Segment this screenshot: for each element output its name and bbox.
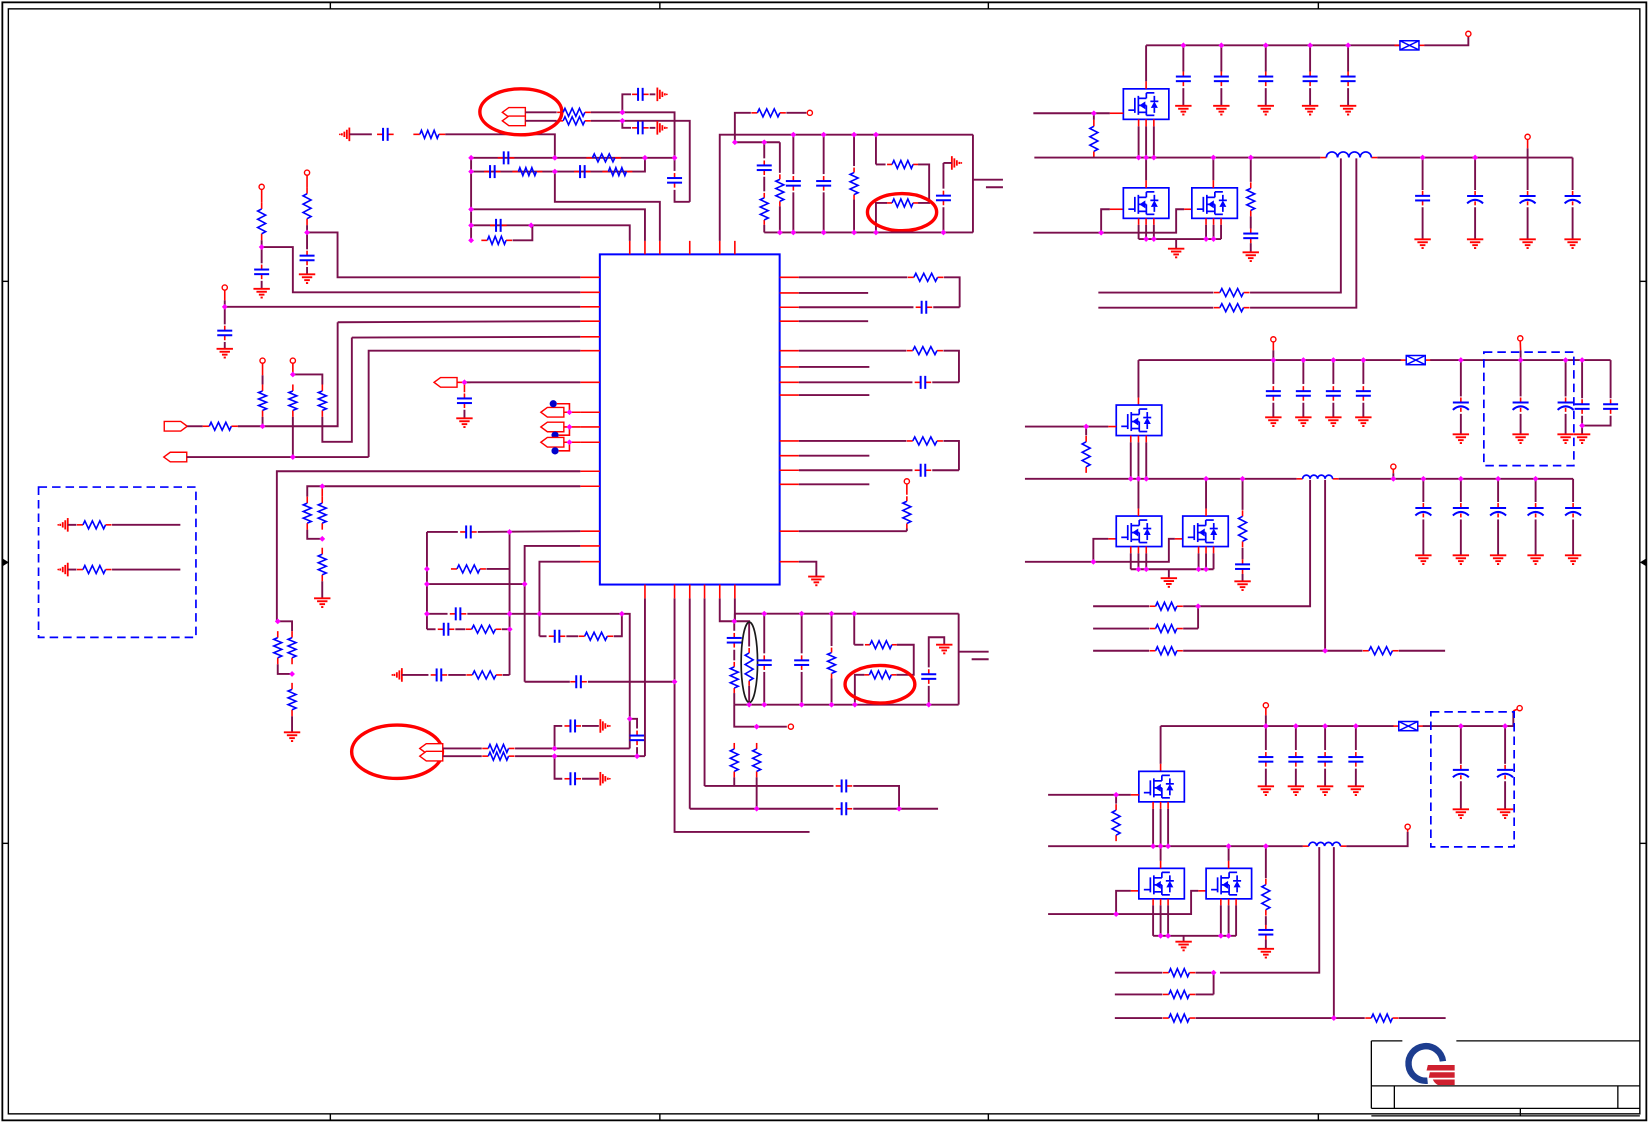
output capacitor mid x1423 [1421, 476, 1427, 482]
comp cap+res row 628.9 [427, 628, 436, 630]
net2 kelvin left vertical [853, 614, 855, 645]
junction x756 row 808 [754, 806, 760, 812]
inductor L3 [1303, 845, 1309, 847]
input capacitor third x1265.5 [1263, 723, 1269, 729]
sense row1 third [1115, 972, 1163, 974]
row B cap branch down [555, 756, 563, 779]
inductor L2 [1297, 478, 1303, 480]
junction x637 row B [634, 753, 640, 759]
output cap 3 top block [1527, 158, 1529, 191]
dashed row2 sideways ground [67, 563, 69, 577]
wire row5 209 to IC pin 644 [471, 209, 645, 241]
wire row 134 to corner down x=554.5 [445, 134, 554, 158]
net2 top rail [735, 613, 959, 615]
net1 kelvin loop left vertical [875, 135, 877, 165]
net2 kelvin resistor upper [854, 644, 863, 646]
pull-up resistor R2 with terminal [304, 170, 309, 175]
IC U1 bottom pins [644, 585, 646, 599]
cap to sideways gnd row 94 [622, 94, 631, 112]
net2 bottom rail [734, 704, 958, 706]
snubber cap middle [1242, 548, 1244, 560]
terminal with capacitor to IC pin row 306.5 [222, 285, 227, 290]
IC left arrow port row 441.9 [541, 437, 564, 447]
snubber ground top block [1250, 243, 1252, 252]
ground below B3 [321, 581, 323, 598]
input capacitor third x1324.75 [1322, 723, 1328, 729]
IC U1 right pins [780, 276, 799, 278]
wire Rc bottom jog [322, 338, 352, 442]
ground source bus third [1183, 936, 1185, 941]
series resistor A3 [291, 683, 293, 690]
VIN rail right segment third [1423, 711, 1514, 726]
wire row4 171.25 [471, 158, 645, 172]
Q2hs drain from rail [1137, 360, 1139, 397]
sideways gnd row 778.4 [582, 778, 599, 780]
row 785.6 cap [705, 785, 834, 787]
input capacitor mid x1303 [1301, 357, 1307, 363]
red ellipse highlight net2 [845, 665, 915, 703]
IC pin x689 vertical [689, 598, 691, 808]
junction row 456.7 at Rb [290, 454, 296, 460]
row 808.4 tail [853, 808, 938, 810]
wire row A to corner x629 [515, 747, 630, 749]
sense row3 second resistor [1363, 650, 1369, 652]
capacitor row4 first [484, 171, 490, 173]
gate wire Q1hs [1033, 112, 1110, 114]
network2 pins join [720, 598, 735, 621]
sense row1 middle [1093, 605, 1149, 607]
wire x554 down to row 201.5 [555, 172, 660, 241]
stacked resistor row 120 [557, 120, 563, 122]
MOSFET Q1 high-side [1123, 89, 1169, 120]
output terminal middle [1391, 464, 1396, 469]
capacitor row4 second [574, 171, 580, 173]
red ellipse highlight top-left [480, 89, 562, 135]
net2 chain x801 cap [801, 614, 803, 654]
wire gnd to cap row 134 [349, 133, 372, 135]
pull-down resistor Rb with terminal [290, 358, 295, 363]
logo Quanta mark [1408, 1046, 1454, 1085]
wire row3 157.5 [471, 157, 674, 159]
junction Rb top [290, 372, 296, 378]
hook wire dot to port 441.9 [559, 442, 570, 451]
input capacitor x1183 [1181, 43, 1187, 49]
net2 chain x831 resistor [831, 614, 833, 646]
sense row3 second resistor third [1365, 1017, 1371, 1019]
net2 kelvin resistor lower in ellipse [864, 674, 869, 676]
RC pair group2 resistor row 350.3 [799, 350, 907, 352]
junction row 613 x509 [507, 611, 513, 617]
junction gate Q3hs [1113, 792, 1119, 798]
source bus top block [1139, 238, 1221, 240]
capacitor row6 [490, 224, 496, 226]
source bus third block [1153, 935, 1236, 937]
gate pulldown resistor Q2hs [1085, 427, 1087, 436]
row 681 cap to IC pin x674 [525, 681, 570, 683]
junction 426.6 [567, 424, 573, 430]
sense row2 middle [1093, 628, 1149, 630]
junction row6 left [468, 223, 474, 229]
Q3ls source pins [1152, 899, 1154, 906]
net2 lower resistor pair row 726.3 [734, 705, 787, 727]
IC right ground row 561.3 [799, 562, 817, 576]
junction net2 pin node [731, 618, 737, 624]
gate bus low side third [1048, 891, 1198, 914]
cap x1581 middle [1579, 357, 1585, 363]
wire x629 from row 613 corner down to row A [622, 614, 630, 749]
dashed box cap 1 middle [1518, 357, 1524, 363]
net1 kelvin resistor lower in ellipse [887, 202, 892, 204]
MOSFET Q3 high-side [1139, 771, 1185, 802]
Q2ls1 drain [1137, 479, 1139, 509]
wire row 674.6 to x509 corner [503, 674, 510, 676]
twin resistor B1 [306, 497, 308, 504]
junction x801 bottom [799, 702, 805, 708]
junction row4 left [468, 169, 474, 175]
wires ports to resistors [443, 747, 482, 749]
net1 kelvin lower left leg [876, 203, 887, 233]
no-connect terminal row 112.5 [786, 112, 806, 114]
fuse top block [1394, 44, 1400, 46]
output capacitor mid x1460.5 [1458, 476, 1464, 482]
phase rail top block [1034, 157, 1320, 159]
junction x943 bottom [941, 230, 947, 236]
blue terminal dot bottom [551, 447, 558, 454]
stub row 292.6 [799, 292, 868, 294]
input capacitor x1309.75 [1307, 43, 1313, 49]
sense row2 third [1115, 993, 1163, 995]
junction x898 row 808 [896, 806, 902, 812]
comp cap row 531.6 [427, 531, 458, 533]
pull-down resistor Ra with terminal [260, 358, 265, 363]
vertical capacitor x 674 bridging rows [674, 173, 676, 178]
MOSFET Q2 low-side 2 [1183, 516, 1229, 547]
wire row 120 right [591, 121, 690, 202]
ground below [224, 342, 226, 348]
title block outline [1371, 1041, 1640, 1116]
junction gate bus [1098, 230, 1104, 236]
net1 chain x853 resistor [853, 135, 855, 166]
capacitor C at node 306.5 [224, 326, 226, 331]
sense vertical L1 right [1250, 158, 1356, 307]
wire R1 node to IC pin row 292 [262, 247, 581, 292]
junction row 531 x509 [507, 529, 513, 535]
IC pin x674 vertical [675, 598, 810, 832]
snubber resistor middle [1240, 476, 1246, 482]
sense vertical L2 right [1324, 480, 1326, 651]
twin pair A bottom join [278, 664, 292, 674]
Q1ls source pins [1138, 218, 1140, 225]
border zone ticks top [329, 2, 331, 9]
source bus middle block [1131, 568, 1214, 570]
sense vertical L2 left [1198, 480, 1310, 606]
third block VIN rail [1161, 725, 1394, 727]
feedback terminal resistor x906 [904, 479, 909, 484]
junction row 568 left [424, 566, 430, 572]
net1 offpage tap [973, 179, 1003, 181]
capacitor C at R2 [306, 251, 308, 256]
gate pulldown resistor Q1hs [1093, 113, 1095, 120]
red ellipse highlight bottom ports [352, 725, 443, 778]
ground source bus top [1175, 239, 1177, 248]
dashed row1 resistor [68, 524, 77, 526]
ground below cap 382 [463, 410, 465, 418]
red ellipse highlight net1 [867, 194, 936, 231]
resistor in row 425.9 [203, 425, 210, 427]
net2 chain x764 cap [763, 614, 765, 654]
wire row 337.2 to IC [352, 336, 580, 339]
Q3ls2 drain [1226, 843, 1232, 849]
resistor row7 240 [481, 239, 487, 241]
network1 top rail [720, 135, 973, 241]
series resistor B3 [321, 548, 323, 555]
border zone ticks left [2, 280, 8, 282]
junction row3 x554 [552, 155, 558, 161]
comp resistor row 568.6 [451, 568, 457, 570]
output terminal third [1407, 829, 1409, 832]
phase rail middle block [1025, 478, 1297, 480]
phase rail third block [1048, 845, 1303, 847]
junction x875 bottom [873, 230, 879, 236]
wire IC row 470.9 long to left [277, 471, 580, 621]
wire Rb bottom to row 456.7 [292, 417, 294, 457]
junction twin pair A top [275, 619, 281, 625]
wire IC row 485.9 to twin pair B [307, 486, 580, 496]
bulk cap 2 third dashed box [1502, 723, 1508, 729]
dashed box middle converter [1484, 352, 1574, 466]
RC pair group2 cap row 382 [799, 381, 913, 383]
sense vertical L3 left [1220, 847, 1319, 973]
middle block VIN rail [1138, 359, 1401, 361]
net2 chain x734 cap [733, 621, 735, 631]
stacked resistor row 112 [557, 111, 563, 113]
output cap 4 top block [1572, 158, 1574, 191]
junction row 425.9 at Ra [260, 423, 266, 429]
row 808.4 cap [690, 808, 834, 810]
wire row 112 right [591, 112, 675, 171]
input capacitor mid x1273 [1271, 357, 1277, 363]
twin pair B bottom join [307, 530, 322, 539]
dashed row1 sideways ground [67, 518, 69, 532]
junction row 112 cap branch [620, 110, 626, 116]
junction row 636 jog at row 613 [619, 611, 625, 617]
gate wire Q3hs [1048, 794, 1131, 796]
junction row 681 at pin x674 [672, 679, 678, 685]
wire R2 node to IC pin row 277 [307, 232, 580, 277]
hook wire dot to port 426.6 [559, 427, 570, 435]
row 785.6 corner down [853, 786, 899, 809]
comp cap row 613.5 [427, 613, 448, 615]
border zone ticks right [1640, 280, 1646, 282]
gate pulldown resistor Q3hs [1115, 795, 1117, 804]
junction row 726 x756 [754, 724, 760, 730]
gate branch Q1ls1 [1101, 209, 1110, 232]
resistor x756 to row 808 [756, 743, 758, 749]
inductor L1 [1320, 157, 1326, 159]
junction row5 left [468, 207, 474, 213]
wire node to IC pin row 306.5 [225, 306, 581, 308]
input capacitor third x1355.5 [1353, 723, 1359, 729]
fuse middle block [1401, 359, 1407, 361]
junction gate Q1hs [1091, 110, 1097, 116]
output cap 1 top block [1420, 155, 1426, 161]
stub row 394.7 [799, 394, 870, 396]
dashed row2 wire [112, 569, 180, 571]
MOSFET Q1 low-side 1 [1123, 188, 1169, 219]
sense row3 third [1115, 1017, 1163, 1019]
capacitor below node 382 [463, 382, 465, 392]
no-connect terminal top right [1466, 31, 1471, 36]
junction R1 node [259, 244, 265, 250]
junction x831 bottom [829, 702, 835, 708]
stub row 455.3 [799, 455, 870, 457]
resistor to no-connect row 112.5 right of IC [735, 113, 751, 142]
border zone ticks bottom [329, 1114, 331, 1121]
junction row 583 right [522, 581, 528, 587]
input capacitor x1347.75 [1345, 43, 1351, 49]
sideways ground row 134 [348, 128, 350, 142]
resistor row 134 [413, 133, 420, 135]
junction row 583 left [424, 581, 430, 587]
junction x674 row 157.5 [672, 155, 678, 161]
MOSFET Q1 low-side 2 [1192, 188, 1238, 219]
cap to sideways gnd row 127.5 [622, 121, 631, 128]
row A cap branch up [555, 726, 563, 749]
blue terminal dot mid [551, 432, 558, 439]
Q1ls1 drain [1145, 158, 1147, 181]
corner cap x1610 middle [1610, 360, 1612, 398]
junction row B x554 [552, 753, 558, 759]
junction row4 x554 [552, 169, 558, 175]
wire Rb top to Rc top [293, 374, 323, 384]
junction dots overlay [222, 43, 1585, 1021]
twin resistor A2 branch [278, 621, 292, 631]
x524 vertical from IC row 545.6 [525, 546, 581, 682]
capacitor C at R1 [261, 265, 263, 270]
phase rail right of L3 [1346, 832, 1407, 846]
resistor row4 second [602, 171, 608, 173]
resistor row3 [586, 157, 592, 159]
hook wire dot to port 411.9 [557, 404, 570, 413]
junction row3 x644 [642, 155, 648, 161]
ground below C-R2 [306, 267, 308, 274]
wire row 583.7 [427, 583, 525, 585]
junction row7 left [468, 238, 474, 244]
double arrow port pair bottom [420, 744, 443, 754]
sideways ground row 94 [650, 93, 656, 95]
net1 bottom rail [764, 231, 973, 233]
ground source bus middle [1168, 569, 1170, 577]
resistor row B [482, 755, 488, 757]
net1 right vertical [972, 135, 974, 233]
net2 chain x749 resistor in black ellipse [734, 621, 749, 646]
RC pair group3 corner [943, 441, 959, 470]
resistor row A [482, 747, 488, 749]
junction row A x554 [552, 746, 558, 752]
junction x793 bottom [791, 230, 797, 236]
sideways ground row 674.6 [401, 668, 403, 682]
Q1hs drain from rail [1145, 45, 1147, 81]
capacitor row3 [498, 157, 504, 159]
wire port1 row 112 to resistor [525, 111, 556, 113]
stub row 366.6 [799, 366, 870, 368]
wire row 321.9 to IC [338, 321, 581, 322]
junction x779 bottom [777, 230, 783, 236]
pull-down resistor Rc [321, 384, 323, 391]
RC pair group1 corner [944, 277, 960, 307]
Q1hs source pins to phase rail [1138, 119, 1140, 126]
MOSFET Q2 high-side [1116, 405, 1162, 436]
sideways gnd row 725.6 [582, 725, 599, 727]
sense resistor row 292 [1098, 292, 1213, 294]
input capacitor x1221 [1219, 43, 1225, 49]
input capacitor mid x1333 [1331, 357, 1337, 363]
no-connect row 726 [788, 724, 793, 729]
Q3hs drain from rail [1160, 726, 1162, 764]
junction x629 row 718.5 [627, 716, 633, 722]
net1 sense cap with sideways ground [951, 156, 953, 170]
wire row B to corner x644 [515, 755, 645, 757]
junction row3 left [468, 155, 474, 161]
net1 chain x779 resistor [779, 142, 781, 173]
junction row 120 cap branch [620, 118, 626, 124]
junction row 628 x509 [507, 626, 513, 632]
IC pin x644 vertical to row B [644, 598, 646, 756]
RC pair group1 cap row 306.9 [799, 306, 914, 308]
dashed row1 wire [112, 524, 180, 526]
junction x1581 y425 [1579, 423, 1585, 429]
dashed box cap 2 middle [1563, 357, 1569, 363]
IC left arrow port row 411.9 [541, 407, 564, 417]
net1 chain x764 resistor [763, 177, 765, 192]
gate bus low side top block [1033, 209, 1184, 232]
pull-up resistor R1 with terminal [259, 184, 264, 189]
snubber ground third [1265, 940, 1267, 949]
RC pair group3 cap row 469.9 [799, 469, 913, 471]
junction net1 141.9 [732, 139, 738, 145]
junction x749 bottom [746, 702, 752, 708]
black ellipse highlight [741, 622, 757, 702]
dashed box third converter [1431, 712, 1514, 847]
output terminal top block [1525, 134, 1530, 139]
input terminal middle left [1271, 337, 1276, 342]
VIN rail right segment middle [1430, 359, 1610, 361]
junction snubber top [1248, 155, 1254, 161]
twin resistor A1 [277, 631, 279, 638]
output capacitor mid x1535.25 [1533, 476, 1539, 482]
Q3ls1 drain [1160, 846, 1162, 861]
resistor row4 first [512, 171, 518, 173]
Q2ls source pins [1130, 547, 1132, 554]
fuse third block [1393, 725, 1399, 727]
input terminal third left [1263, 703, 1268, 708]
top block VIN rail [1146, 44, 1401, 46]
input capacitor mid x1363 [1361, 357, 1367, 363]
input port row 456.7 [164, 452, 187, 462]
dashed box bottom-left [39, 487, 196, 637]
gate branch Q3ls1 [1116, 891, 1131, 914]
input capacitor x1265.4 [1263, 43, 1269, 49]
output cap 2 top block [1472, 155, 1478, 161]
wire row6 225 to IC pin 629 [471, 225, 630, 241]
MOSFET Q3 low-side 1 [1139, 868, 1185, 899]
junction x823 bottom [821, 230, 827, 236]
twin resistor B2 [321, 486, 323, 496]
gate bus low side middle [1025, 539, 1175, 562]
sense vertical L1 left [1250, 158, 1341, 292]
comp left vertical x426 [426, 532, 428, 629]
IC U1 top pins [629, 241, 631, 255]
